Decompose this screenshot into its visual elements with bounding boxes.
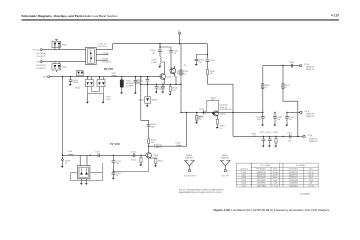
wire varactor loop (71, 163, 103, 181)
svg-text:750: 750 (173, 53, 176, 55)
node dot (90, 155, 91, 156)
connector J RX_A2 (300, 111, 302, 113)
svg-text:C5219: C5219 (95, 151, 100, 153)
wire LOW to U5200 (42, 61, 85, 63)
oscillator feedback rail (141, 83, 181, 85)
pin wire U5200 pin1 to top rail (96, 44, 112, 50)
vertical feed x181 from top rail to output rail (180, 44, 182, 113)
svg-text:R5216: R5216 (266, 132, 271, 134)
svg-text:220 nH: 220 nH (308, 175, 313, 177)
svg-text:Q5202: Q5202 (220, 113, 225, 115)
svg-text:0 0.4 RX: 0 0.4 RX (102, 58, 109, 60)
svg-text:45MHZ RX: 45MHZ RX (309, 141, 318, 143)
svg-text:8.2 pF: 8.2 pF (309, 180, 313, 182)
svg-text:C5209: C5209 (289, 62, 294, 64)
capacitor C5213 (256, 112, 265, 126)
shield fork VCO TOP (220, 155, 231, 177)
svg-text:2113741F49: 2113741F49 (257, 177, 266, 179)
svg-text:1000: 1000 (159, 89, 163, 91)
rail bend down to decoupling (197, 44, 208, 59)
table row lines (236, 167, 318, 184)
wire rail to RX_A lower connector (287, 111, 300, 113)
capacitor C5206 (137, 76, 150, 84)
wire vertical drop right with jog (283, 66, 298, 137)
svg-text:45.100 MHZ 20: 45.100 MHZ 20 (220, 109, 232, 111)
svg-text:10 pF: 10 pF (273, 180, 277, 182)
capacitor C5203 (206, 55, 215, 65)
varactor pair D5204 (75, 76, 93, 90)
svg-text:2113740F47: 2113740F47 (289, 183, 298, 185)
wire vertical drop left (262, 66, 264, 113)
svg-text:C5222: C5222 (260, 132, 265, 134)
inductor L5203 (67, 151, 73, 155)
series capacitor C5209 (289, 62, 294, 68)
svg-text:0.39uH: 0.39uH (151, 62, 157, 64)
node dot (62, 76, 63, 77)
capacitor C5202 (195, 59, 204, 65)
series capacitor C5219 on TX rail (95, 151, 100, 157)
wire varactor ground legs (88, 94, 104, 102)
svg-text:D5201: D5201 (62, 67, 67, 69)
svg-text:100: 100 (116, 163, 119, 165)
svg-text:2.95 (4V) TX: 2.95 (4V) TX (36, 56, 46, 58)
svg-text:2113740F55: 2113740F55 (257, 183, 266, 185)
svg-text:C5217: C5217 (287, 133, 292, 135)
varactor pair D5200 (52, 39, 67, 49)
resistor R5211 (282, 84, 290, 90)
svg-text:C5218: C5218 (273, 132, 278, 134)
wire long left vertical (62, 77, 64, 156)
svg-text:750: 750 (199, 62, 202, 64)
emitter resistor R5205 (216, 116, 225, 130)
node dot (113, 155, 114, 156)
pin wire U5200 pin3 (96, 59, 108, 61)
svg-text:C5214: C5214 (131, 151, 136, 153)
connector J TX_A (303, 135, 305, 137)
svg-text:L5203: L5203 (67, 151, 72, 153)
svg-text:R5212: R5212 (131, 159, 136, 161)
svg-text:VR5200: VR5200 (151, 99, 157, 101)
test point TP5200 (61, 155, 70, 167)
svg-text:45: 45 (265, 87, 267, 89)
capacitor divider C5220 (112, 155, 121, 171)
svg-text:Q5203: Q5203 (153, 155, 158, 157)
svg-text:15 pF: 15 pF (273, 183, 277, 185)
capacitor C5222 (260, 132, 266, 147)
wire bias branch (160, 44, 171, 50)
svg-text:560: 560 (277, 119, 280, 121)
svg-text:L5200: L5200 (242, 172, 246, 174)
svg-text:45MHZ TX: 45MHZ TX (306, 116, 315, 118)
svg-text:0.01: 0.01 (152, 52, 155, 54)
table frame (236, 163, 318, 187)
svg-text:R5214: R5214 (158, 161, 163, 163)
svg-text:270 nH: 270 nH (273, 175, 278, 177)
svg-text:1.75 uH: 1.75 uH (308, 185, 313, 187)
capacitor C5210 (150, 50, 162, 57)
svg-text:D5204: D5204 (75, 88, 80, 90)
node dot (140, 155, 141, 156)
wire RX CNTL to U5200 (42, 49, 85, 51)
svg-text:750: 750 (288, 140, 291, 142)
node dot resonator (121, 76, 122, 77)
wire CNTL rail (50, 76, 162, 78)
wire output rail (181, 111, 263, 113)
svg-text:C BIAS TX: C BIAS TX (154, 146, 163, 149)
svg-text:BRACKET: BRACKET (185, 157, 193, 160)
svg-text:Q5200: Q5200 (166, 76, 171, 78)
svg-text:C5203: C5203 (210, 60, 215, 62)
wire emitter feedback (114, 158, 149, 171)
capacitor C5211 (169, 47, 178, 56)
svg-text:2.95 (4V) TX: 2.95 (4V) TX (102, 62, 112, 64)
resistor R5207 to ground (195, 112, 204, 124)
svg-text:L5204: L5204 (176, 142, 181, 144)
resistor R5210 (169, 84, 178, 95)
svg-text:39 pF: 39 pF (273, 177, 277, 179)
resistor R5217 (273, 132, 278, 147)
transistor Q5202 (212, 111, 225, 117)
svg-text:2.95 (4V) RX: 2.95 (4V) RX (36, 65, 47, 67)
wire long vertical from RX section down (140, 84, 142, 116)
svg-text:RX CNTL: RX CNTL (33, 49, 40, 51)
svg-text:0.7uH: 0.7uH (106, 99, 111, 101)
inductor L5204 (176, 142, 182, 146)
svg-text:BRACKET: BRACKET (221, 157, 229, 160)
ground (102, 102, 105, 104)
series capacitor C5215 on rail (199, 109, 205, 114)
svg-text:L5203: L5203 (242, 175, 246, 177)
svg-text:2462587T39: 2462587T39 (289, 172, 298, 174)
svg-text:4-139: 4-139 (331, 14, 339, 18)
connector J RX_A (300, 65, 302, 67)
svg-text:CNTL: CNTL (43, 77, 47, 79)
svg-text:120: 120 (173, 90, 176, 92)
collector chain up: resistor R5215 and capacitor C5216 (141, 116, 156, 153)
svg-text:TX_VCO: TX_VCO (110, 143, 120, 146)
svg-text:D5203: D5203 (139, 99, 144, 101)
svg-text:2.92 (A): 2.92 (A) (103, 52, 109, 55)
collector feed resistor R5206 branch (206, 64, 233, 136)
svg-text:100: 100 (183, 73, 186, 75)
svg-text:2113741F41: 2113741F41 (289, 177, 298, 179)
wire TX buffer output (149, 112, 187, 146)
capacitor C5211b (273, 112, 282, 127)
transistor Q5203 (146, 153, 158, 160)
svg-text:100: 100 (195, 121, 198, 123)
svg-text:RX VCO: RX VCO (104, 68, 113, 71)
series capacitor C5217 (287, 133, 292, 143)
svg-text:Value: Value (309, 169, 313, 171)
svg-text:Figure 4-63. Low Band (29.7-4: Figure 4-63. Low Band (29.7-42/35-50 MHz… (214, 208, 330, 212)
svg-text:4-26148863: 4-26148863 (300, 193, 310, 195)
svg-text:C5221: C5221 (242, 183, 247, 185)
emitter resistor R5214 (150, 158, 163, 167)
inductor L5200 on rail (111, 73, 117, 77)
resistor R5208 (180, 70, 188, 75)
transistor Q5201 (170, 56, 184, 75)
svg-text:2.95 (4V) TX: 2.95 (4V) TX (36, 68, 46, 70)
svg-text:18 pF: 18 pF (309, 177, 313, 179)
capacitor C5205 (155, 84, 164, 93)
svg-text:C5220: C5220 (242, 180, 247, 182)
wire top output rail (263, 65, 300, 67)
crystal resonator Y5200 (120, 77, 138, 94)
inductor L5201 (151, 56, 161, 67)
capacitor C5204 (134, 76, 143, 94)
superfilter IC U5200 (86, 47, 97, 64)
svg-text:L5207: L5207 (242, 185, 246, 187)
transistor Q5200 (160, 62, 172, 84)
svg-text:NU: NU (310, 183, 312, 185)
varicap VR5200 (139, 84, 158, 107)
shield fork VCO BOTTOM (184, 155, 196, 177)
svg-text:35 - 50 MHz: 35 - 50 MHz (296, 165, 305, 167)
svg-text:45MHZ TX: 45MHZ TX (306, 69, 315, 71)
svg-text:1.37 0.2 RX: 1.37 0.2 RX (98, 46, 108, 48)
node dot (282, 65, 283, 66)
varactor pair D5205 (97, 76, 105, 87)
capacitor C5223 (266, 132, 272, 147)
svg-text:2462587T40: 2462587T40 (257, 175, 266, 177)
pin wire U5200 pin2 (96, 54, 108, 56)
wire osc collector link (175, 73, 177, 84)
wire feedback vertical (140, 77, 142, 85)
wire varactor cross-link (88, 87, 104, 94)
series capacitor C5222b on TX rail (131, 151, 136, 157)
table column lines (251, 163, 304, 187)
svg-text:270 nH: 270 nH (273, 172, 278, 174)
svg-text:15: 15 (116, 175, 118, 177)
svg-text:10: 10 (220, 128, 222, 130)
svg-text:2113741F25: 2113741F25 (257, 180, 266, 182)
svg-text:L5200: L5200 (111, 73, 116, 75)
svg-text:82: 82 (65, 163, 67, 165)
svg-text:45: 45 (285, 87, 287, 89)
svg-text:C5204: C5204 (242, 177, 247, 179)
svg-text:2462587T40: 2462587T40 (257, 172, 266, 174)
capacitor C5212 (285, 112, 294, 127)
svg-text:D5200: D5200 (62, 44, 67, 46)
svg-text:2462587T39: 2462587T39 (289, 175, 298, 177)
svg-text:29.7 - 42 MHz: 29.7 - 42 MHz (260, 165, 270, 167)
svg-text:8.2p: 8.2p (137, 82, 140, 84)
varactor pair D5201 (52, 62, 67, 72)
svg-text:1.75 uH: 1.75 uH (272, 185, 277, 187)
svg-text:LOW: LOW (36, 61, 40, 63)
svg-text:Schematic Diagrams, Overlays,: Schematic Diagrams, Overlays, and Parts … (22, 14, 118, 18)
svg-text:VCO TOP: VCO TOP (221, 175, 229, 177)
svg-text:1000pF: 1000pF (73, 82, 79, 84)
svg-text:45.33MHz: 45.33MHz (126, 85, 134, 87)
ground (86, 102, 89, 104)
svg-text:330: 330 (210, 73, 213, 75)
capacitor C5207 (161, 84, 165, 93)
svg-text:C5215: C5215 (199, 109, 204, 111)
svg-text:Value: Value (273, 169, 277, 171)
svg-text:VCO BOTTOM: VCO BOTTOM (184, 175, 196, 177)
varactor pair D5206 (77, 155, 90, 185)
svg-text:2.95 (4V) RX: 2.95 (4V) RX (36, 53, 47, 55)
header rule (22, 19, 340, 20)
capacitor divider C5221 (112, 171, 121, 180)
shield box around Q5202 (207, 101, 219, 113)
wire top rail (113, 43, 208, 45)
svg-text:1.5/8: 1.5/8 (257, 119, 261, 121)
wire TX rail (63, 154, 146, 156)
wire TX output rail (233, 135, 300, 137)
capacitor C5200 (69, 76, 79, 86)
svg-text:220 nH: 220 nH (308, 172, 313, 174)
svg-text:2113741F33: 2113741F33 (289, 180, 298, 182)
resistor R5209 (262, 84, 270, 90)
svg-text:1000: 1000 (151, 127, 155, 129)
varactor pair D5202 (76, 71, 83, 77)
node dot (140, 76, 141, 77)
resistor R5212 (131, 155, 142, 166)
